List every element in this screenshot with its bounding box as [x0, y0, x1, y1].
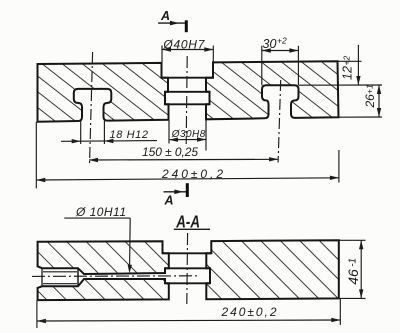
A-A label underline [174, 228, 210, 230]
dimension 30+2: dim line with arrows [262, 50, 299, 52]
svg-text:+2: +2 [342, 56, 352, 66]
step face line top of groove (A-A) [165, 267, 210, 269]
dimension 26+1: dim line with arrows [378, 85, 380, 117]
centerline of central hole (A-A) [186, 233, 189, 304]
A-A right hatched section [206, 240, 338, 299]
svg-text:А: А [164, 194, 174, 208]
svg-text:А: А [160, 9, 170, 23]
dimension 26+1: extension line bottom [339, 116, 382, 118]
centerline of left T-slot [90, 52, 93, 165]
section mark bottom: line and arrow [164, 191, 188, 193]
svg-text:26: 26 [363, 94, 377, 109]
A-A thread inner line bottom [43, 283, 77, 285]
dimension F30H8: dim line with arrows [169, 139, 206, 141]
step face line bottom of F40 (top view) [162, 77, 214, 79]
svg-text:+2: +2 [277, 36, 287, 46]
dimension 12+2: text rotated [341, 56, 355, 80]
dimension F40H7: extension lines [161, 46, 163, 63]
dimension 150: dim line with arrows [89, 158, 278, 161]
A-A upper-left hatched section [38, 241, 169, 274]
dimension 240 A-A: extension lines [36, 300, 38, 328]
section mark bottom: thick tick [186, 183, 189, 197]
F10H11 leader underline [64, 217, 130, 219]
step face line bottom of F40 (A-A) [163, 252, 212, 254]
dimension 30+2: extension lines [261, 46, 263, 86]
A-A counterbore chamfer edge line [41, 268, 43, 286]
svg-text:46: 46 [345, 269, 361, 285]
svg-text:-1: -1 [348, 258, 359, 267]
dimension 46-1: extension lines [339, 239, 365, 241]
dimension 240 A-A: dim line with arrows [37, 320, 340, 321]
dimension 240 top view: extension lines [35, 122, 37, 188]
dimension 18H12: dim line with arrows [61, 140, 157, 143]
step face line top of groove (top view) [165, 91, 210, 93]
dimension 240 top view: dim line with arrows [36, 178, 339, 180]
svg-text:12: 12 [341, 66, 355, 80]
svg-text:+1: +1 [365, 84, 375, 94]
top view right hatched section [206, 61, 339, 119]
A-A section label [175, 213, 200, 232]
svg-text:18 Н12: 18 Н12 [110, 129, 149, 141]
svg-text:240±0,2: 240±0,2 [221, 305, 277, 319]
dimension 46-1: dim line with arrows [360, 240, 362, 298]
dimension 12+2: extension lines [338, 60, 362, 62]
A-A counterbore end face line [77, 268, 79, 286]
centerline of right T-slot [278, 80, 281, 163]
section mark top: line and arrow [158, 22, 186, 24]
dimension 18H12: extension lines [80, 121, 82, 144]
svg-text:150 ± 0,25: 150 ± 0,25 [142, 145, 198, 159]
centerline of side hole (A-A) [32, 275, 200, 278]
F10H11 leader line with arrow [129, 218, 132, 266]
top view left hatched section [38, 63, 169, 122]
step face line bottom of groove (top view) [165, 103, 210, 105]
svg-text:30: 30 [263, 37, 277, 51]
dimension 12+2: dim line with arrow [357, 45, 359, 85]
A-A lower-left hatched section [38, 279, 169, 300]
step face line bottom of groove (A-A) [165, 282, 210, 284]
dimension F30H8: extension lines [168, 120, 170, 144]
svg-text:Ø 10Н11: Ø 10Н11 [75, 205, 126, 219]
A-A thread inner line top [43, 271, 77, 273]
dimension F40H7: dim line with arrows [162, 49, 213, 51]
svg-text:Ø40Н7: Ø40Н7 [162, 37, 205, 51]
section mark top: thick tick [185, 20, 188, 32]
dimension 26+1: text rotated [363, 84, 377, 108]
dimension 46-1: text rotated [345, 258, 361, 285]
svg-text:Ø30Н8: Ø30Н8 [171, 129, 206, 140]
centerline of central hole (top view) [186, 56, 187, 144]
